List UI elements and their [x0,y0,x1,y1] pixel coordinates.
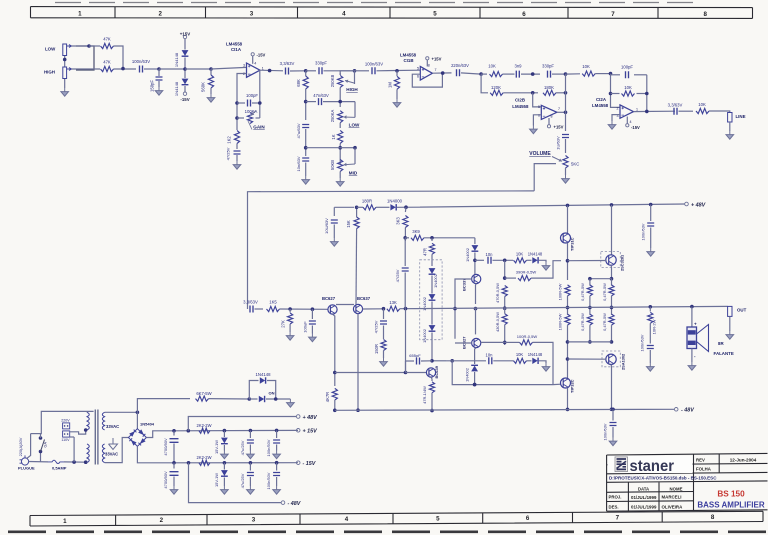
transistor Q1 BC627 [328,305,337,314]
wire output feedback drop [259,70,261,118]
ground zobel [647,363,655,371]
capacitor 4700/50V (1) [170,439,179,443]
transistor Q6 TIP31C [561,233,571,243]
svg-text:-15V: -15V [257,53,266,58]
switch power [41,440,45,452]
wire [474,238,476,244]
ground MID pot [336,178,344,186]
junction 100pF left [235,101,239,105]
junction clamp node [183,67,187,71]
wire LOW tip [72,45,90,47]
transistor Q2 BC637 [353,304,362,313]
svg-text:1K: 1K [331,134,336,139]
svg-text:220V: 220V [61,419,70,423]
wire [431,333,433,361]
ground 100n+ [273,451,281,459]
wire [400,308,415,310]
junction [566,357,570,361]
junction [503,259,507,263]
wire [305,163,307,177]
wire [431,254,433,266]
wire [305,89,307,120]
svg-text:250KB: 250KB [330,75,335,88]
svg-text:BC627: BC627 [322,296,336,301]
wire [679,110,694,112]
power +15V (clamp) [183,35,186,38]
resistor 27K [288,313,293,324]
transistor Q7 TIP32C [561,378,571,388]
wire [404,273,406,309]
svg-text:1N4148: 1N4148 [174,81,179,96]
junction [645,110,649,114]
svg-text:1U/63V: 1U/63V [556,136,561,150]
junction -48 rail left end [333,409,337,413]
junction [403,236,407,240]
svg-text:330pF: 330pF [315,61,327,66]
wire [431,302,433,325]
junction NFB shunt [382,307,386,311]
svg-text:FALANTE: FALANTE [714,351,734,356]
potentiometer 50KB MID [338,159,343,171]
junction mix node [121,67,125,71]
wire [612,408,614,410]
junction [645,92,649,96]
capacitor 3,3/63V line out [674,108,677,115]
capacitor 47/25V NFB [380,321,387,324]
wire [504,297,506,309]
svg-text:50KB: 50KB [330,160,335,170]
transistor Q8 2SC3281 [606,255,616,265]
junction tone left top [304,69,308,73]
wire [340,147,355,149]
power +15V PSU [296,429,317,435]
wire [396,71,398,76]
ground 560K [207,94,215,102]
wire CI2B out [557,111,566,113]
svg-text:LM4558: LM4558 [592,103,609,108]
junction [610,203,614,207]
wire LED top branch [249,381,258,400]
junction [275,429,279,433]
svg-text:CI1A: CI1A [231,47,242,52]
svg-text:390R-0,5W: 390R-0,5W [516,270,537,275]
wire [729,122,731,131]
jack OUT [728,306,732,316]
svg-text:150R: 150R [374,344,379,354]
svg-text:47R: 47R [423,248,428,256]
junction [338,100,342,104]
resistor 0,47R-5W (1) [587,285,592,296]
wire long feed to power amp [248,191,535,306]
resistor 180R [363,205,376,210]
svg-text:OLIVEIRA: OLIVEIRA [662,504,684,509]
junction [566,306,570,310]
ground 4700 (2) [170,486,178,494]
wire [729,316,731,331]
wire lower bias jog [452,361,472,385]
resistor 0,47R-5W (4) [609,314,614,325]
wire tone bottom link [306,147,341,149]
svg-text:1K5: 1K5 [269,300,277,305]
diode 1N4000 [390,204,396,210]
svg-text:BC639: BC639 [434,365,439,378]
junction 47R top [430,236,434,240]
wire [565,168,567,175]
ground lower aux [542,363,550,371]
power +48V PSU [296,415,317,421]
svg-text:HIGH: HIGH [44,70,55,75]
svg-text:0,5AMP: 0,5AMP [52,465,67,470]
junction VAS takeoff [333,371,337,375]
wire bias top row [424,237,475,239]
wire [210,88,212,94]
svg-text:47K: 47K [103,37,111,42]
wire volume wiper feed [534,164,556,191]
wire to switch [40,452,42,462]
wire to bridge top [136,412,138,428]
ground tone left [302,176,310,184]
frame bottom band [30,511,763,526]
potentiometer 50KC VOLUME [563,156,568,169]
ground zener+ [221,451,229,459]
title block frame [607,453,768,511]
svg-text:2K2-2W: 2K2-2W [197,455,212,460]
wire pin8 stub [426,60,428,67]
wire emitters couple [336,304,354,306]
power -48V rail [674,408,694,414]
svg-text:3,3/63V: 3,3/63V [668,103,683,108]
fuse 0,5AMP [48,460,64,463]
wire [553,383,561,385]
capacitor 100n/63V (-rail) [610,423,617,426]
wire [505,341,520,343]
junction -48 tap [187,461,191,465]
wire BC327 base [455,342,472,344]
wire [634,74,647,76]
wire to BC639 base [406,372,427,374]
capacitor 150pF [156,77,163,80]
wire [355,70,370,72]
resistor 470R-0,5W [502,286,507,297]
wire [114,68,137,70]
mains plug PLUGUE [20,455,29,465]
diode 1N4002 (lower) [471,365,478,371]
wire 6K7 feed [137,399,190,413]
junction 100pF right [258,101,262,105]
capacitor 47u/63V [302,125,309,128]
resistor 6K7-5W [196,396,209,401]
svg-text:4700/50V: 4700/50V [163,471,168,489]
wiper arrow MID [344,163,356,167]
output transistor dashed box lower [602,351,620,367]
wire 2SA collector to -48 [610,365,613,410]
svg-text:ON: ON [269,391,275,396]
svg-text:10R-2W: 10R-2W [652,319,657,334]
wire [405,361,407,373]
resistor 1K5 [267,306,280,311]
junction [473,383,477,387]
svg-text:4: 4 [254,62,256,66]
resistor 10K feedback CI2A [622,91,635,96]
svg-text:5: 5 [436,516,440,523]
svg-text:330pF: 330pF [542,64,554,69]
wire [475,348,477,364]
junction [72,460,76,464]
svg-text:4: 4 [345,516,349,523]
scan edge artifact top [55,2,700,4]
svg-text:27K: 27K [281,320,286,328]
svg-text:2: 2 [617,106,619,110]
svg-text:6: 6 [417,74,419,78]
wire [567,243,569,280]
junction [223,461,227,465]
svg-text:6: 6 [522,11,526,18]
capacitor 100n/63V input [140,66,143,73]
wire [649,307,651,312]
resistor 4K7R tail [332,388,337,400]
wire to ground [64,79,66,88]
wire [356,207,358,217]
capacitor 47u/25V (+) [247,440,254,443]
resistor 10K (CI2A in) [582,71,595,76]
wire [612,409,614,420]
power +15V CI1B [426,57,429,60]
svg-text:8: 8 [428,63,430,67]
junction [649,305,653,309]
svg-text:100n/63V: 100n/63V [132,59,150,64]
svg-text:1N4002: 1N4002 [422,329,427,343]
wire [323,101,355,103]
wire [276,463,278,471]
svg-text:430R-0,5W: 430R-0,5W [495,312,500,332]
junction [609,72,613,76]
svg-text:- 48V: - 48V [288,501,301,507]
diode 1N4148 (upper) [532,257,538,263]
power -15V PSU [296,461,315,467]
potentiometer 250KA LOW [338,111,343,123]
svg-text:33VAC: 33VAC [105,452,118,457]
svg-text:1: 1 [63,518,67,525]
svg-text:100n/50V: 100n/50V [266,472,271,489]
wire [649,323,651,343]
wire [306,101,316,103]
wire [589,279,591,286]
wire [611,279,613,286]
wire CI1B feedback loop [412,73,442,87]
svg-text:10K: 10K [516,252,524,257]
wire LOW wiper link [354,102,356,118]
wire [236,144,238,150]
svg-text:8: 8 [551,115,553,119]
junction [610,408,614,412]
wire [255,308,264,310]
wire CI1A out [260,69,283,72]
wire [405,237,409,239]
svg-text:250KA: 250KA [330,110,335,123]
svg-text:15V-1W: 15V-1W [214,473,219,487]
diode 1N4148 (lower) [532,358,538,364]
thermal compensation dashed box [420,260,442,340]
wire [185,68,211,70]
svg-text:100n/63V: 100n/63V [640,334,645,351]
svg-text:2: 2 [160,517,164,524]
svg-text:10K: 10K [582,64,590,69]
junction [474,307,478,311]
diode 1N4002 (bias 1) [429,268,436,274]
wire treble wiper drop [354,71,356,84]
junction [531,91,535,95]
op-amp U1B CI1B [420,67,432,81]
ground LINE jack [726,131,734,139]
capacitor 330pF [319,67,322,74]
wire VAS base row [335,372,406,374]
wire [567,388,569,410]
wire [567,325,569,378]
wire [236,155,238,161]
junction [209,67,213,71]
wire to TIP32C base [533,342,554,384]
wire [305,71,307,76]
ground 10u/63V [331,238,339,246]
wire [566,73,581,75]
wire [611,325,613,342]
svg-text:5: 5 [538,105,540,109]
wire [504,260,506,280]
wire [333,207,335,216]
op-amp U1A CI1A [247,63,261,77]
junction [531,72,535,76]
svg-text:GA: GA [44,442,48,448]
wire secondary bottom to bridge left [105,438,129,463]
wire [159,68,185,70]
svg-text:10K: 10K [488,64,496,69]
wire [334,400,336,410]
wire [184,86,186,92]
wire BC337 emitter [475,284,478,304]
svg-text:BC337: BC337 [462,278,467,291]
junction 1M node [395,69,399,73]
wire BC637 collector up [355,229,358,305]
junction [503,306,507,310]
capacitor 100n/63V zobel [647,346,654,349]
wire BC337 base drop [455,279,472,339]
ground volume pot [562,175,570,183]
wire switch to primary top [41,411,94,438]
wire -48V tap [189,463,282,503]
wire [503,92,538,94]
wire [691,349,693,363]
svg-text:3K9: 3K9 [412,229,420,234]
junction [503,341,507,345]
wire left loop [27,434,31,459]
junction [450,359,454,363]
diode 1N4148 clamp upper [182,50,189,56]
power -48V PSU [281,501,301,507]
wire [86,410,88,413]
junction [610,340,614,344]
junction [288,307,292,311]
resistor 430R-0,5W [502,314,507,325]
junction LED right [274,397,278,401]
resistor 150R [381,340,386,351]
junction [84,460,88,464]
ground 27K [286,332,294,340]
wire pin3 gnd [612,115,620,121]
wire [539,361,546,363]
wire BC627 collector down [333,314,335,386]
junction [566,408,570,412]
junction [473,383,477,387]
svg-text:4: 4 [342,11,346,18]
wire [153,462,174,464]
resistor 15K [354,217,359,229]
diode 1N4148 (LED clamp) [260,377,266,383]
junction [249,429,253,433]
resistor 10R-2W zobel [648,312,653,323]
wire [539,260,546,262]
resistor 180K [543,90,556,95]
wire 2SC base row [568,260,607,262]
svg-text:10U/63V: 10U/63V [324,218,329,234]
power -15V CI2A [626,124,629,127]
svg-text:47/25V: 47/25V [226,147,231,160]
svg-text:100n/50V: 100n/50V [266,439,271,456]
svg-text:47K: 47K [103,60,111,65]
wire BC639 emitter [431,377,432,381]
wire vertical [565,74,567,112]
wire [565,139,567,153]
svg-text:LINE: LINE [736,114,746,119]
junction LED left [248,397,252,401]
svg-text:10n/63V: 10n/63V [296,156,301,171]
ground zener- [221,486,229,494]
transformer T1 primary [87,412,89,462]
output transistor dashed box upper [601,252,621,268]
wire [474,372,476,385]
svg-text:7: 7 [616,514,620,521]
wire [276,430,278,438]
svg-text:180R: 180R [362,198,372,203]
wire [158,81,160,87]
svg-text:7: 7 [435,68,437,72]
svg-text:15V-1W: 15V-1W [214,440,219,454]
diode zener 15V-1W (+) [221,438,228,444]
svg-text:+ 48V: + 48V [691,202,706,208]
wire NFB node down [405,309,407,373]
diode LED ON [259,396,265,402]
junction [353,146,357,150]
power +48V rail [685,202,706,208]
wire [311,326,313,334]
wire [173,477,175,487]
wire to pin5 [533,93,542,107]
svg-text:4700/50V: 4700/50V [163,438,168,456]
svg-text:10K: 10K [698,102,706,107]
resistor 100R-5W upper [565,285,570,296]
wire 2SA base row [568,358,607,360]
svg-text:7: 7 [611,11,615,18]
resistor 1M [394,76,399,89]
svg-text:1N4002: 1N4002 [433,274,438,288]
resistor 10K line [696,108,709,113]
wire lower branch [481,74,488,93]
wire [611,296,613,315]
wire [276,445,278,451]
junction decoupled rail [355,206,359,210]
wire [31,433,41,435]
svg-text:+15V: +15V [180,32,190,37]
wire miller left [406,360,415,362]
